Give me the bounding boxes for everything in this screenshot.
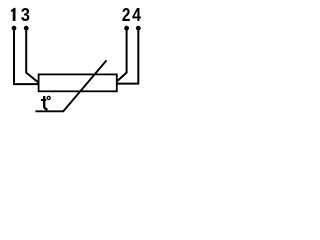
- svg-text:2: 2: [122, 5, 131, 25]
- svg-text:3: 3: [21, 5, 30, 25]
- svg-text:4: 4: [132, 5, 141, 25]
